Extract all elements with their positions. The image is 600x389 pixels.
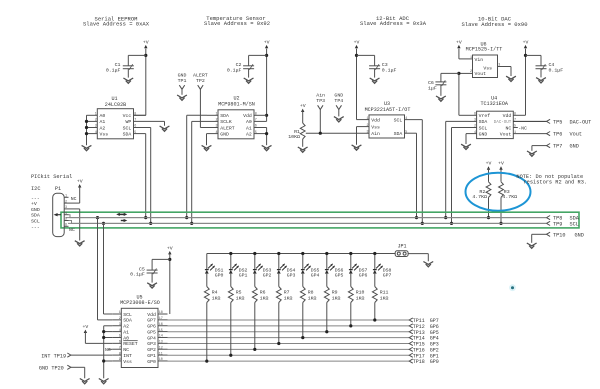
svg-text:C6: C6 (428, 80, 434, 86)
svg-text:NC: NC (506, 125, 512, 131)
svg-text:Vss: Vss (123, 359, 132, 365)
svg-text:1KΩ: 1KΩ (308, 296, 317, 302)
svg-text:GP3: GP3 (287, 273, 296, 279)
wire +V to U3 Vdd (356, 49, 358, 120)
svg-text:R11: R11 (380, 289, 389, 295)
wire R5 to GP1 (230, 303, 232, 356)
svg-text:1: 1 (65, 195, 67, 199)
ground TP10 (527, 243, 537, 246)
testpoint TP6 Vout (547, 132, 551, 136)
wire R4 to GP0 (206, 303, 208, 362)
svg-text:1: 1 (95, 113, 97, 117)
svg-text:GP5: GP5 (335, 273, 344, 279)
svg-text:TC1321EOA: TC1321EOA (480, 101, 508, 107)
svg-text:GP7: GP7 (147, 318, 156, 324)
LED DS1 (206, 254, 208, 270)
svg-text:8: 8 (119, 352, 121, 356)
svg-text:GP7: GP7 (383, 273, 392, 279)
svg-text:10KΩ: 10KΩ (288, 134, 300, 140)
svg-text:0.1μF: 0.1μF (130, 271, 145, 277)
svg-text:Slave Address = 0x3A: Slave Address = 0x3A (360, 20, 427, 27)
resistor R9 1K (326, 274, 328, 287)
svg-text:Vcc: Vcc (123, 113, 132, 119)
svg-text:4: 4 (405, 117, 407, 121)
junction rail (301, 252, 304, 255)
svg-text:+V: +V (498, 161, 504, 167)
svg-text:C5: C5 (139, 266, 145, 272)
svg-text:DS2: DS2 (239, 267, 248, 273)
wire U4 Vout to TP6 (513, 133, 546, 135)
svg-text:GND: GND (31, 207, 40, 213)
svg-text:4: 4 (95, 131, 97, 135)
svg-text:TP18: TP18 (413, 359, 425, 365)
svg-text:---: --- (31, 196, 40, 201)
svg-text:A2: A2 (123, 324, 129, 330)
wire U1 WP to ground (164, 121, 166, 125)
svg-text:8: 8 (514, 113, 516, 117)
svg-text:SCL: SCL (123, 312, 132, 318)
svg-text:A0: A0 (100, 113, 106, 119)
svg-text:R6: R6 (260, 289, 266, 295)
wire U3 Vss to ground (357, 126, 370, 128)
LED DS5 (302, 254, 304, 270)
svg-text:6: 6 (134, 125, 136, 129)
svg-text:8: 8 (255, 113, 257, 117)
bus junction dots SCL (102, 222, 105, 225)
label RESET overline (123, 340, 137, 342)
svg-text:2: 2 (95, 119, 97, 123)
wire +V to U2 Vdd (266, 49, 268, 122)
svg-text:GND: GND (479, 131, 488, 137)
wire U5 address pins to ground (104, 325, 113, 327)
wire R1 wiper to U3 Ain (306, 132, 369, 134)
svg-text:2: 2 (65, 200, 67, 204)
ground below C4 (536, 78, 546, 81)
svg-text:GP6: GP6 (147, 324, 156, 330)
svg-text:GND: GND (334, 93, 343, 99)
svg-text:Slave Address = 0x90: Slave Address = 0x90 (461, 21, 527, 28)
svg-text:ALERT: ALERT (193, 73, 208, 79)
svg-text:DAC-OUT: DAC-OUT (570, 119, 592, 125)
svg-text:0.1μF: 0.1μF (106, 67, 121, 73)
svg-text:SDA: SDA (123, 318, 132, 324)
ground TP20 (80, 379, 90, 382)
svg-text:DS6: DS6 (335, 267, 344, 273)
svg-text:INT: INT (123, 353, 132, 359)
svg-text:SCL: SCL (479, 125, 488, 131)
svg-text:15: 15 (159, 329, 163, 333)
svg-text:18: 18 (159, 311, 163, 315)
svg-text:TP5: TP5 (553, 119, 562, 125)
svg-text:4: 4 (119, 329, 121, 333)
capacitor C5 (152, 258, 170, 260)
resistor R4 1K (206, 274, 208, 287)
wire U4 SCL to bus (452, 127, 469, 129)
wire R8 to GP4 (302, 303, 304, 338)
wire U2 SDA to bus (187, 114, 207, 116)
svg-text:---: --- (31, 225, 40, 230)
svg-text:5: 5 (514, 125, 516, 129)
capacitor C2 (249, 54, 267, 56)
wire P1-3 GND to ground (69, 208, 80, 210)
resistor R5 1K (230, 274, 232, 287)
capacitor C3 (357, 54, 375, 56)
ground U1 Vss (82, 145, 92, 148)
svg-text:4: 4 (474, 131, 476, 135)
ground below C2 (244, 78, 254, 81)
svg-text:8: 8 (134, 113, 136, 117)
svg-text:SDA: SDA (31, 213, 40, 219)
wire P1-4 SDA to bus (69, 215, 547, 218)
svg-text:Vdd: Vdd (371, 117, 380, 123)
svg-text:C4: C4 (549, 62, 555, 68)
svg-text:1KΩ: 1KΩ (212, 296, 221, 302)
svg-text:TP3: TP3 (316, 98, 325, 104)
svg-text:DS3: DS3 (263, 267, 272, 273)
svg-text:Vdd: Vdd (243, 113, 252, 119)
svg-text:TP7: TP7 (553, 144, 562, 150)
testpoint TP5 DAC-OUT (547, 119, 551, 123)
svg-text:Slave Address = 0xAX: Slave Address = 0xAX (83, 21, 150, 28)
resistor R7 1K (278, 274, 280, 287)
wires GP7-GP0 to testpoints (168, 319, 410, 321)
svg-text:3: 3 (474, 119, 476, 123)
svg-text:MCP3221A5T-I/OT: MCP3221A5T-I/OT (365, 107, 411, 113)
svg-text:DS5: DS5 (311, 267, 320, 273)
svg-text:+V: +V (523, 39, 529, 45)
testpoint TP9 SCL (547, 221, 551, 225)
wire SCL bus (68, 222, 547, 224)
svg-text:+V: +V (486, 161, 492, 167)
bus box I2C (61, 212, 579, 228)
LED DS6 (326, 254, 328, 270)
junction rail (325, 252, 328, 255)
svg-text:R9: R9 (332, 289, 338, 295)
svg-text:+V: +V (300, 103, 306, 109)
svg-text:-NC: -NC (518, 126, 527, 132)
svg-text:1KΩ: 1KΩ (260, 296, 269, 302)
wire U2 A1 A2 to ground (266, 128, 268, 146)
resistor R8 1K (302, 274, 304, 287)
svg-text:7: 7 (119, 346, 121, 350)
svg-text:PICkit Serial: PICkit Serial (31, 174, 72, 180)
wire +V to U5 RESET (84, 331, 86, 343)
wire +V to U4 Vdd (525, 49, 527, 116)
resistor R3 4.7K (500, 168, 502, 182)
svg-text:17: 17 (159, 317, 163, 321)
ground U4 GND (461, 144, 471, 147)
capacitor C6 (441, 72, 459, 74)
svg-text:NC: NC (69, 227, 75, 233)
svg-text:GP5: GP5 (147, 329, 156, 335)
svg-text:Vin: Vin (475, 57, 484, 63)
svg-text:SCL: SCL (123, 125, 132, 131)
testpoint TP7 GND (547, 144, 551, 148)
ground U5 Vss (99, 379, 109, 382)
svg-text:Vss: Vss (100, 131, 109, 137)
ground below C6 (436, 96, 446, 99)
svg-text:1KΩ: 1KΩ (332, 296, 341, 302)
svg-text:A1: A1 (123, 329, 129, 335)
svg-text:3: 3 (215, 125, 217, 129)
testpoint TP10 GND (547, 232, 551, 236)
ground TP7 (527, 151, 537, 154)
svg-text:1KΩ: 1KΩ (236, 296, 245, 302)
wire U6 Vss to ground (498, 66, 512, 68)
svg-text:DS1: DS1 (215, 267, 224, 273)
wire U3 SCL to bus (405, 119, 423, 121)
svg-text:C2: C2 (236, 62, 242, 68)
svg-text:6: 6 (119, 341, 121, 345)
ground below R1 (298, 147, 308, 150)
svg-text:13: 13 (159, 341, 163, 345)
svg-text:DS7: DS7 (359, 267, 368, 273)
svg-text:R4: R4 (212, 289, 218, 295)
svg-text:5: 5 (255, 131, 257, 135)
svg-text:2: 2 (119, 317, 121, 321)
svg-text:Vss: Vss (483, 65, 492, 71)
svg-text:GP4: GP4 (147, 335, 156, 341)
ground U6 Vss (506, 76, 516, 79)
wire R10 to GP6 (350, 303, 352, 326)
wire TP19 to U5 INT (71, 354, 112, 356)
ground JP1 (423, 262, 433, 265)
svg-text:TP9: TP9 (553, 222, 562, 228)
svg-text:I2C: I2C (31, 186, 41, 192)
ground below C5 (147, 283, 157, 286)
svg-text:Vdd: Vdd (147, 312, 156, 318)
svg-text:GND: GND (570, 144, 579, 150)
wire U4 GND to ground (466, 133, 469, 135)
svg-text:WP: WP (126, 119, 132, 125)
pin NC U4 (513, 127, 518, 129)
wire U2 SCLK to bus (192, 120, 207, 122)
wire SDA bus to U5 SDA (97, 218, 99, 320)
svg-text:C1: C1 (115, 62, 121, 68)
svg-text:GP1: GP1 (239, 273, 248, 279)
svg-text:TP10: TP10 (553, 232, 565, 238)
svg-text:+V: +V (77, 179, 83, 185)
svg-text:Slave Address = 0x92: Slave Address = 0x92 (204, 20, 270, 27)
svg-text:GND: GND (575, 232, 584, 238)
svg-text:GP6: GP6 (359, 273, 368, 279)
svg-text:INT TP19: INT TP19 (41, 353, 66, 359)
capacitor C1 (128, 54, 146, 56)
svg-text:TP1: TP1 (178, 78, 187, 84)
svg-text:A1: A1 (246, 125, 252, 131)
svg-text:TP4: TP4 (334, 98, 343, 104)
wire +V to U6 Vin (458, 49, 460, 59)
svg-text:R8: R8 (308, 289, 314, 295)
svg-text:C3: C3 (382, 62, 388, 68)
svg-text:6: 6 (474, 113, 476, 117)
svg-text:NC: NC (123, 347, 129, 353)
svg-text:Ain: Ain (316, 93, 325, 99)
svg-text:MCP23008-E/SO: MCP23008-E/SO (120, 300, 160, 306)
LED DS8 (374, 254, 376, 270)
svg-text:4.7KΩ: 4.7KΩ (502, 194, 517, 200)
svg-text:SDA: SDA (394, 131, 403, 137)
svg-text:1: 1 (119, 311, 121, 315)
svg-text:1μF: 1μF (428, 85, 437, 91)
ground below C1 (123, 78, 133, 81)
svg-text:ALERT: ALERT (220, 125, 235, 131)
svg-text:6: 6 (255, 125, 257, 129)
junction rail (253, 252, 256, 255)
wire U6 Vout to U4 Vref (459, 72, 473, 74)
svg-text:R3: R3 (504, 189, 510, 195)
ground U2 GND (202, 145, 212, 148)
svg-text:2: 2 (215, 119, 217, 123)
junction rail (277, 252, 280, 255)
junction rail (229, 252, 232, 255)
svg-text:+V: +V (354, 39, 360, 45)
wire SDA bus (66, 217, 547, 219)
note ellipse around R2 R3 (466, 173, 531, 211)
junction rail (349, 252, 352, 255)
svg-text:7: 7 (514, 119, 516, 123)
svg-text:3: 3 (366, 130, 368, 134)
svg-text:MCP9801-M/SN: MCP9801-M/SN (218, 101, 255, 107)
svg-text:1KΩ: 1KΩ (284, 296, 293, 302)
svg-text:GP0: GP0 (215, 273, 224, 279)
svg-text:7: 7 (134, 119, 136, 123)
svg-text:0.1μF: 0.1μF (227, 67, 242, 73)
wire R11 to GP7 (374, 303, 376, 321)
svg-text:6: 6 (65, 224, 67, 228)
svg-text:NC: NC (71, 196, 77, 202)
svg-text:1: 1 (514, 131, 516, 135)
svg-text:Vout: Vout (475, 71, 487, 77)
svg-text:GP2: GP2 (147, 347, 156, 353)
svg-text:GND TP20: GND TP20 (39, 365, 64, 371)
svg-text:A2: A2 (246, 131, 252, 137)
svg-text:5: 5 (134, 131, 136, 135)
svg-text:4.7KΩ: 4.7KΩ (472, 194, 487, 200)
svg-text:5: 5 (65, 218, 67, 222)
svg-text:16: 16 (159, 323, 163, 327)
wire TP7 to ground (532, 145, 547, 147)
svg-text:GND: GND (220, 131, 229, 137)
svg-text:MCP1525-I/TT: MCP1525-I/TT (466, 46, 503, 52)
LED DS4 (278, 254, 280, 270)
resistor R6 1K (254, 274, 256, 287)
svg-text:9: 9 (119, 358, 121, 362)
arrow P1 SDA direction (54, 213, 58, 216)
svg-text:RESET: RESET (123, 341, 138, 347)
svg-text:SCL: SCL (394, 117, 403, 123)
ground U3 Vss (352, 145, 362, 148)
svg-text:1KΩ: 1KΩ (356, 296, 365, 302)
svg-text:R10: R10 (356, 289, 365, 295)
marker dot (509, 284, 516, 291)
wire R6 to GP2 (254, 303, 256, 350)
svg-text:4: 4 (65, 212, 67, 216)
LED DS2 (230, 254, 232, 270)
svg-text:Vdd: Vdd (503, 113, 512, 119)
capacitor C4 (526, 54, 542, 56)
svg-text:24LC02B: 24LC02B (105, 102, 126, 108)
wire R9 to GP5 (326, 303, 328, 332)
svg-text:0.1μF: 0.1μF (549, 67, 564, 73)
svg-text:SCLK: SCLK (220, 119, 232, 125)
svg-text:SDA: SDA (220, 113, 229, 119)
svg-text:A2: A2 (100, 125, 106, 131)
wire U4 DAC-OUT to TP5 (513, 120, 546, 122)
wire TP20 to ground (71, 366, 85, 368)
svg-text:3: 3 (95, 125, 97, 129)
svg-text:1: 1 (215, 113, 217, 117)
svg-text:SDA: SDA (479, 119, 488, 125)
svg-text:GND: GND (178, 73, 187, 79)
arrow SCL direction (121, 220, 124, 222)
svg-text:GP3: GP3 (147, 341, 156, 347)
wire U4 SDA to bus (446, 120, 469, 122)
svg-text:+V: +V (167, 245, 173, 251)
arrow bidirectional SDA (119, 213, 125, 215)
svg-text:4: 4 (215, 131, 217, 135)
wire U3 SDA to bus (405, 132, 417, 134)
svg-text:JP1: JP1 (397, 243, 406, 249)
svg-text:SCL: SCL (31, 219, 40, 225)
svg-text:+V: +V (31, 201, 37, 207)
svg-text:Vss: Vss (371, 124, 380, 130)
svg-text:2: 2 (474, 125, 476, 129)
svg-text:GP0: GP0 (147, 359, 156, 365)
svg-text:TP2: TP2 (196, 78, 205, 84)
testpoint TP8 SDA (547, 216, 551, 220)
svg-text:Ain: Ain (371, 131, 380, 137)
ground below C3 (370, 78, 380, 81)
wire U1 SDA to bus (145, 134, 147, 218)
svg-text:NC: NC (105, 347, 111, 353)
svg-text:1: 1 (366, 117, 368, 121)
ground U1 WP (160, 126, 170, 129)
svg-text:2: 2 (366, 124, 368, 128)
svg-text:GP1: GP1 (147, 353, 156, 359)
resistor R11 1K (374, 274, 376, 287)
svg-text:5: 5 (405, 130, 407, 134)
svg-text:DS8: DS8 (383, 267, 392, 273)
wire P1-5 SCL to bus (69, 221, 547, 224)
bus junction dots SDA (96, 216, 99, 219)
svg-text:GP2: GP2 (263, 273, 272, 279)
wire U2 GND pin (206, 133, 209, 135)
wire U1 address pins to ground (86, 115, 88, 145)
svg-text:10: 10 (159, 358, 163, 362)
wire U1 SCL to bus (150, 128, 152, 224)
svg-text:DAC-OUT: DAC-OUT (494, 121, 512, 125)
wire LED cathode rail (207, 253, 395, 255)
svg-text:DS4: DS4 (287, 267, 296, 273)
svg-text:TP6: TP6 (553, 132, 562, 138)
ground U2 A1 A2 (262, 145, 272, 148)
potentiometer R1 10K (302, 110, 304, 123)
wire SCL bus to U5 SCL (103, 223, 105, 314)
svg-text:Vref: Vref (479, 113, 491, 119)
svg-text:3: 3 (65, 206, 67, 210)
svg-text:Vout: Vout (570, 132, 582, 138)
svg-text:+V: +V (83, 324, 89, 330)
svg-text:Vout: Vout (500, 131, 512, 137)
ground P1-3 (75, 241, 85, 244)
svg-text:A1: A1 (100, 119, 106, 125)
svg-text:resistors R2 and R3.: resistors R2 and R3. (524, 179, 588, 185)
svg-text:P1: P1 (55, 186, 61, 192)
svg-text:A0: A0 (246, 119, 252, 125)
svg-text:0.1μF: 0.1μF (382, 67, 397, 73)
svg-text:5: 5 (119, 335, 121, 339)
